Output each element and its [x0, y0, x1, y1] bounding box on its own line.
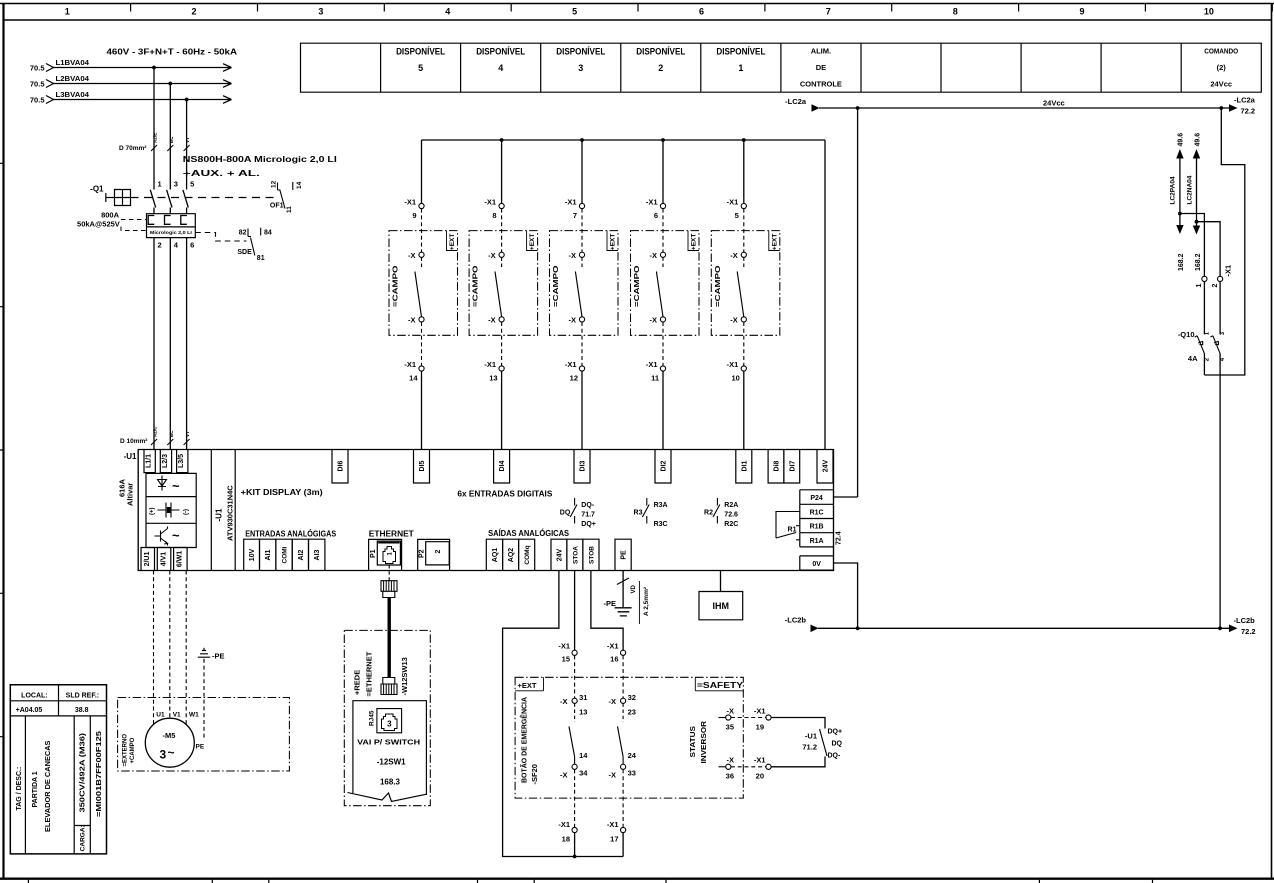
svg-text:CARGA:: CARGA:: [80, 825, 87, 851]
wire phase 2 drop: [169, 84, 171, 190]
svg-text:6x ENTRADAS DIGITAIS: 6x ENTRADAS DIGITAIS: [457, 490, 553, 499]
svg-text:R1C: R1C: [810, 510, 824, 517]
wire L2BVA04: [54, 74, 232, 87]
svg-text:3: 3: [1220, 331, 1226, 335]
svg-text:-Q10: -Q10: [1178, 330, 1195, 339]
aux contact SDE: [237, 228, 271, 262]
terminal R1C: [800, 504, 834, 518]
junction on L3: [185, 98, 189, 102]
svg-text:38.8: 38.8: [75, 707, 89, 714]
svg-text:L1/1: L1/1: [146, 454, 153, 468]
svg-text:DISPONÍVEL: DISPONÍVEL: [636, 47, 685, 57]
svg-text:AZ/C: AZ/C: [153, 426, 158, 437]
field terminal -X 35: [719, 707, 735, 732]
svg-text:R1: R1: [788, 527, 797, 534]
svg-text:2/U1: 2/U1: [144, 552, 151, 567]
svg-text:-PE: -PE: [212, 652, 225, 661]
wire X1:17 to rail: [575, 833, 624, 857]
wire rail to X1:6: [662, 140, 664, 203]
svg-text:33: 33: [628, 769, 636, 778]
field switch contact column 9: [415, 257, 422, 316]
svg-text:6: 6: [190, 241, 194, 250]
net 24Vcc rail LC2a: [785, 96, 1256, 116]
switch RJ45 port 3: [368, 709, 401, 733]
svg-text:+EXT: +EXT: [771, 234, 778, 250]
junction 24Vcc / P24 feed: [856, 106, 860, 110]
svg-text:STOB: STOB: [588, 546, 595, 564]
enclosure box +EXT / =SAFETY: [515, 677, 744, 798]
svg-text:R2: R2: [704, 510, 713, 517]
switch labels: [357, 738, 420, 787]
svg-text:~: ~: [172, 528, 180, 543]
label ETHERNET: [369, 530, 414, 539]
svg-text:COMANDO: COMANDO: [1204, 47, 1238, 56]
svg-text:ELEVADOR DE CANECAS: ELEVADOR DE CANECAS: [45, 740, 52, 832]
junction on rail at DI column 8: [500, 138, 504, 142]
svg-text:350CV/492A (M36): 350CV/492A (M36): [80, 733, 87, 813]
field terminal -X lower column 8: [488, 316, 504, 325]
svg-text:-X: -X: [560, 697, 568, 706]
svg-text:DI6: DI6: [338, 460, 345, 471]
svg-text:23: 23: [628, 708, 636, 717]
svg-text:3: 3: [578, 63, 583, 73]
svg-text:10: 10: [731, 374, 739, 383]
terminal AQ2: [503, 539, 519, 570]
RJ45 plug upper W12SW13: [381, 581, 397, 598]
svg-text:+EXT: +EXT: [529, 234, 536, 250]
svg-text:NS800H-800A Micrologic 2,0 LI: NS800H-800A Micrologic 2,0 LI: [183, 155, 337, 164]
wire PE from drive: [617, 571, 650, 625]
terminal X1:19: [754, 707, 771, 732]
svg-text:L1BVA04: L1BVA04: [56, 58, 90, 67]
wire rail to X1:5: [743, 140, 745, 203]
svg-text:4: 4: [445, 7, 450, 17]
svg-text:32: 32: [628, 693, 636, 702]
svg-text:-LC2b: -LC2b: [785, 616, 807, 625]
svg-text:6: 6: [654, 211, 658, 220]
svg-text:+AUX. + AL.: +AUX. + AL.: [183, 169, 260, 178]
svg-text:VT: VT: [185, 137, 190, 143]
svg-text:14: 14: [579, 751, 588, 760]
svg-text:5: 5: [735, 211, 739, 220]
wire X1:14 to drive DI: [421, 371, 423, 449]
svg-text:8: 8: [492, 211, 496, 220]
svg-text:71.7: 71.7: [581, 512, 595, 519]
svg-text:AQ1: AQ1: [492, 548, 499, 563]
wire LC2NA04 from 49.6: [1186, 133, 1201, 226]
svg-text:1: 1: [1196, 284, 1203, 288]
svg-text:5: 5: [190, 180, 194, 189]
svg-text:INVERSOR: INVERSOR: [699, 720, 708, 763]
svg-text:DISPONÍVEL: DISPONÍVEL: [716, 47, 765, 57]
ground -PE motor branch: [198, 648, 225, 661]
svg-text:(-): (-): [184, 509, 190, 515]
svg-text:-LC2a: -LC2a: [785, 97, 807, 106]
svg-text:-SF20: -SF20: [530, 764, 539, 784]
svg-text:13: 13: [489, 374, 497, 383]
wire X1:10 to drive DI: [743, 371, 745, 449]
svg-text:2: 2: [658, 63, 663, 73]
svg-text:(2): (2): [1217, 63, 1227, 72]
terminal DI5: [414, 450, 430, 484]
field terminal -X upper column 9: [408, 251, 424, 260]
converter block: [146, 473, 196, 547]
field wire to X1:13: [501, 322, 503, 366]
svg-text:ENTRADAS ANALÓGIGAS: ENTRADAS ANALÓGIGAS: [245, 530, 337, 539]
svg-text:ETHERNET: ETHERNET: [369, 530, 414, 539]
svg-text:24Vcc: 24Vcc: [1043, 99, 1065, 108]
terminal X1:11: [646, 360, 666, 383]
terminal AQ1: [486, 539, 502, 570]
svg-text:DQ-: DQ-: [828, 753, 842, 760]
svg-text:1: 1: [65, 7, 70, 17]
svg-text:-X1: -X1: [484, 198, 496, 207]
junction LC2NA04 branch: [1195, 220, 1199, 224]
svg-text:9: 9: [1079, 7, 1084, 17]
svg-text:-X1: -X1: [565, 198, 577, 207]
svg-text:8: 8: [953, 7, 958, 17]
port P1 RJ45: [369, 539, 402, 570]
svg-text:DE: DE: [816, 63, 826, 72]
field terminal -X lower column 7: [569, 316, 585, 325]
wire X1:2 to Q10: [1219, 282, 1221, 335]
wire STOA to X1:15: [574, 571, 576, 651]
svg-text:71.2: 71.2: [802, 743, 817, 752]
svg-text:+A04.05: +A04.05: [16, 707, 43, 714]
svg-text:84: 84: [264, 230, 272, 237]
terminal X1:2: [1212, 276, 1223, 287]
junction LC2b / Q10: [1218, 626, 1222, 630]
svg-text:-12SW1: -12SW1: [377, 758, 406, 767]
terminal X1:7: [565, 198, 585, 221]
svg-text:7: 7: [573, 211, 577, 220]
wire X1:19 to U1 DQ input: [771, 718, 825, 729]
field terminal -X 33: [609, 751, 637, 780]
wire L3BVA04: [54, 90, 232, 103]
inverter transistor: [155, 527, 168, 546]
U1 reference labels: [118, 452, 235, 541]
field terminal -X lower column 9: [408, 316, 424, 325]
svg-text:0V: 0V: [812, 561, 821, 568]
field wire X1:8 to CAMPO switch: [501, 209, 503, 253]
svg-text:~: ~: [172, 479, 180, 494]
svg-text:-X: -X: [569, 251, 577, 260]
enclosure box =CAMPO +EXT column 6: [631, 231, 700, 336]
field terminal -X lower column 5: [730, 316, 746, 325]
SF20 contact 13-14: [569, 703, 575, 764]
terminal X1:12: [565, 360, 585, 383]
junction LC2b / 0V: [856, 626, 860, 630]
field wire 34 to X1:18: [574, 769, 576, 827]
circuit breaker Q1: [90, 185, 130, 206]
terminal AI1: [260, 539, 276, 570]
junction safety return: [573, 855, 577, 859]
svg-text:ATV930C31N4C: ATV930C31N4C: [226, 485, 235, 541]
svg-text:L3/5: L3/5: [178, 454, 185, 468]
svg-text:V1: V1: [173, 712, 181, 719]
wire phase 3 to drive: [186, 208, 188, 450]
wire X1:11 to drive DI: [662, 371, 664, 449]
svg-text:-X1: -X1: [607, 820, 619, 829]
terminal PE: [615, 539, 631, 570]
terminal COMi: [276, 539, 292, 570]
label KIT DISPLAY: [241, 488, 323, 497]
svg-text:DQ: DQ: [832, 741, 843, 748]
field terminal -X 34: [560, 751, 588, 780]
terminal X1:15: [558, 642, 577, 664]
field wire X1:6 to CAMPO switch: [662, 209, 664, 253]
svg-text:-X1: -X1: [727, 198, 739, 207]
enclosure box =CAMPO +EXT column 5: [711, 231, 780, 336]
svg-text:17: 17: [610, 835, 618, 844]
terminal X1:9: [404, 198, 424, 221]
terminal X1:1: [1196, 276, 1207, 287]
svg-text:-PE: -PE: [603, 599, 616, 608]
svg-text:=CAMPO: =CAMPO: [471, 265, 480, 307]
net 0V rail LC2b: [785, 616, 1256, 637]
svg-text:=CAMPO: =CAMPO: [391, 265, 400, 307]
svg-text:4: 4: [1220, 357, 1226, 361]
field wire 36 to X1:20: [731, 766, 766, 768]
terminal L1/1: [144, 450, 155, 473]
svg-text:36: 36: [726, 772, 734, 781]
svg-text:-X: -X: [650, 251, 658, 260]
field wire to X1:12: [581, 322, 583, 366]
wire Q10 return loop: [1204, 108, 1244, 375]
label 6x ENTRADAS DIGITAIS: [457, 490, 553, 499]
terminal X1:5: [727, 198, 747, 221]
terminal STOB: [583, 539, 599, 570]
svg-text:2: 2: [191, 7, 196, 17]
SDE linkage (dashed): [195, 233, 246, 242]
rectifier AC sign: [172, 479, 180, 494]
field terminal -X lower column 6: [650, 316, 666, 325]
svg-text:Di8: Di8: [774, 460, 781, 471]
wire rail to X1:8: [501, 140, 503, 203]
field terminal -X 36: [719, 756, 735, 781]
wire X1:1 to Q10: [1203, 282, 1205, 335]
svg-text:R2A: R2A: [724, 502, 738, 509]
terminal X1:16: [607, 642, 626, 664]
terminal DI8: [768, 450, 784, 484]
wire Q10 pin4 to LC2b: [1219, 354, 1221, 629]
svg-text:LC2NA04: LC2NA04: [1186, 175, 1193, 204]
svg-text:70.5: 70.5: [30, 64, 45, 73]
field wire PE to motor: [196, 659, 205, 751]
svg-text:2: 2: [435, 550, 442, 554]
svg-text:800A: 800A: [101, 211, 120, 220]
terminal L2/3: [160, 450, 171, 473]
relay contact DQ: [560, 498, 596, 528]
terminal 24V top: [817, 450, 833, 484]
svg-text:-X: -X: [730, 251, 738, 260]
svg-text:OF1: OF1: [270, 203, 284, 210]
terminal X1:13: [484, 360, 504, 383]
off-page arrow LC2PA04 to 168.2: [1176, 225, 1185, 271]
svg-text:-X1: -X1: [607, 642, 619, 651]
terminal X1:18: [558, 820, 577, 844]
node 70.5 source L3: [30, 96, 54, 105]
wire L1BVA04: [54, 58, 232, 71]
rectifier diode: [158, 476, 167, 491]
off-page arrow LC2NA04 to 168.2: [1193, 226, 1202, 272]
svg-text:72.2: 72.2: [1241, 107, 1256, 116]
svg-text:-X: -X: [488, 251, 496, 260]
Q1 rating labels: [77, 211, 146, 231]
svg-text:A 2,5mm²: A 2,5mm²: [643, 586, 650, 616]
svg-text:-X: -X: [569, 316, 577, 325]
svg-text:-X1: -X1: [404, 198, 416, 207]
svg-text:-X1: -X1: [558, 642, 570, 651]
field terminal -X upper column 7: [569, 251, 585, 260]
svg-text:-M5: -M5: [163, 731, 176, 740]
svg-text:5: 5: [418, 63, 423, 73]
terminal 4/V1: [157, 548, 171, 571]
svg-text:72.4: 72.4: [836, 531, 843, 545]
svg-text:50kA@525V: 50kA@525V: [77, 220, 120, 229]
wire LC2PA04 from 49.6: [1170, 133, 1185, 226]
svg-text:6: 6: [699, 7, 704, 17]
svg-text:+REDE: +REDE: [353, 670, 362, 695]
svg-text:SAÍDAS ANALÓGICAS: SAÍDAS ANALÓGICAS: [488, 529, 570, 538]
terminal R1A: [800, 533, 834, 547]
svg-text:81: 81: [257, 255, 265, 262]
field wire X1:7 to CAMPO switch: [581, 209, 583, 253]
svg-text:16: 16: [610, 655, 618, 664]
svg-text:PE: PE: [196, 744, 205, 751]
switch 12SW1 box: [348, 701, 427, 802]
svg-text:SLD REF.:: SLD REF.:: [66, 692, 99, 699]
enclosure box =CAMPO +EXT column 7: [550, 231, 619, 336]
svg-text:P24: P24: [810, 495, 823, 502]
svg-text:10V: 10V: [249, 548, 256, 561]
svg-text:IHM: IHM: [713, 601, 730, 611]
svg-text:R3C: R3C: [654, 521, 668, 528]
svg-text:-U1: -U1: [124, 452, 137, 461]
wire phase 1 drop: [153, 68, 155, 190]
svg-text:24Vcc: 24Vcc: [1210, 80, 1232, 89]
field wire to X1:14: [421, 322, 423, 366]
field switch contact column 7: [575, 257, 582, 316]
Q1 linkage (dashed): [131, 197, 276, 199]
svg-text:DISPONÍVEL: DISPONÍVEL: [396, 47, 445, 57]
svg-text:11: 11: [651, 374, 659, 383]
svg-text:2: 2: [1212, 284, 1219, 288]
wire P24 feed: [834, 108, 858, 497]
svg-text:-X1: -X1: [754, 707, 766, 716]
svg-text:STOA: STOA: [572, 546, 579, 564]
cable W12SW13: [388, 598, 391, 678]
svg-text:+EXT: +EXT: [691, 234, 698, 250]
svg-text:49.6: 49.6: [1178, 133, 1185, 147]
svg-text:-X1: -X1: [646, 360, 658, 369]
label 72.4: [836, 531, 843, 545]
svg-text:168.2: 168.2: [1178, 253, 1185, 271]
svg-text:6/W1: 6/W1: [177, 551, 184, 567]
Q1 pole 5-6: [183, 180, 194, 250]
svg-text:Micrologic 2,0 LI: Micrologic 2,0 LI: [150, 230, 192, 235]
svg-text:4/V1: 4/V1: [160, 552, 167, 567]
svg-text:-U1: -U1: [215, 508, 224, 521]
junction on rail at DI column 7: [580, 138, 584, 142]
svg-text:168.3: 168.3: [380, 778, 401, 787]
terminal 6/W1: [174, 548, 188, 571]
svg-text:-LC2a: -LC2a: [1234, 96, 1256, 105]
Q1 pole 3-4: [167, 180, 179, 250]
wire phase 1 to drive: [153, 208, 155, 450]
svg-text:-X: -X: [488, 316, 496, 325]
svg-text:DI4: DI4: [499, 460, 506, 471]
title block: [10, 685, 106, 854]
svg-text:168.2: 168.2: [1195, 253, 1202, 271]
svg-text:460V - 3F+N+T - 60Hz - 50kA: 460V - 3F+N+T - 60Hz - 50kA: [107, 47, 238, 57]
24V distribution rail to digital inputs: [422, 140, 826, 450]
svg-text:+CAMPO: +CAMPO: [130, 737, 136, 763]
svg-text:70.5: 70.5: [30, 80, 45, 89]
svg-text:W1: W1: [189, 712, 199, 719]
svg-text:DI2: DI2: [661, 460, 668, 471]
cable label D 70mm2: [119, 133, 190, 152]
svg-text:-X1: -X1: [754, 756, 766, 765]
junction on L1: [152, 66, 156, 70]
svg-text:=CAMPO: =CAMPO: [713, 265, 722, 307]
field terminal -X upper column 6: [650, 251, 666, 260]
svg-text:=EXTERNO: =EXTERNO: [123, 734, 129, 767]
svg-text:TAG / DESC.:: TAG / DESC.:: [16, 767, 23, 811]
IHM box: [699, 592, 743, 620]
svg-text:STATUS: STATUS: [688, 726, 697, 758]
terminal AI2: [292, 539, 308, 570]
junction on L2: [168, 82, 172, 86]
svg-text:-W12SW13: -W12SW13: [400, 657, 409, 695]
svg-text:DQ: DQ: [560, 510, 571, 517]
field wire 33 to X1:17: [622, 769, 624, 827]
svg-text:ALIM.: ALIM.: [811, 47, 831, 56]
wire STOB to X1:16: [591, 571, 623, 651]
field terminal -X upper column 8: [488, 251, 504, 260]
svg-text:AI1: AI1: [265, 549, 272, 560]
svg-text:-Q1: -Q1: [90, 185, 104, 194]
terminal X1:20: [754, 756, 771, 781]
label -X1 right column: [1224, 265, 1233, 277]
svg-text:LOCAL:: LOCAL:: [21, 692, 47, 699]
svg-text:DQ-: DQ-: [581, 502, 595, 509]
junction on rail at DI column 5: [742, 138, 746, 142]
field terminal -X 32: [609, 693, 636, 717]
terminal COMq: [519, 539, 535, 570]
terminal P24: [800, 490, 834, 505]
wire X1:13 to drive DI: [501, 371, 503, 449]
Q1 trip unit Micrologic: [147, 214, 196, 238]
svg-text:4: 4: [498, 63, 503, 73]
terminal DI7: [784, 450, 800, 484]
field wire 35 to X1:19: [731, 717, 766, 719]
svg-text:-X1: -X1: [558, 820, 570, 829]
node 70.5 source L2: [30, 80, 54, 89]
svg-text:+EXT: +EXT: [610, 234, 617, 250]
svg-text:-X1: -X1: [1224, 265, 1233, 277]
svg-text:18: 18: [562, 835, 570, 844]
svg-text:-X1: -X1: [646, 198, 658, 207]
svg-text:Altivar: Altivar: [126, 483, 135, 506]
junction on rail at DI column 6: [661, 138, 665, 142]
svg-text:DI3: DI3: [580, 460, 587, 471]
field terminal -X 31: [560, 693, 587, 717]
svg-text:19: 19: [756, 723, 764, 732]
ethernet patch dashed from P1: [388, 565, 390, 581]
net title 460V feeder: [107, 47, 238, 57]
field wire X1:9 to CAMPO switch: [421, 209, 423, 253]
